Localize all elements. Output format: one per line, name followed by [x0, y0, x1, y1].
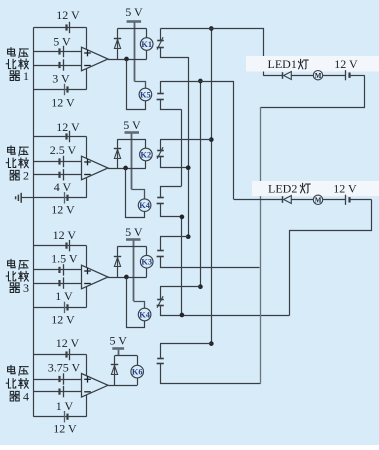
svg-text:1 V: 1 V: [56, 399, 74, 413]
op-amp U1: [82, 47, 109, 71]
wire: K5 contact top to LED2 feed: [161, 82, 234, 200]
wire: coil box top (relay group 2): [117, 139, 146, 141]
svg-text:4: 4: [23, 390, 29, 404]
relay coil K1: [140, 38, 153, 51]
wire: block3 upper contact top branch: [160, 236, 188, 238]
label 电压比较器1: [8, 48, 15, 56]
node: bus D taps LED1 feed wire: [209, 26, 214, 31]
wire: LED2 branch: [234, 199, 282, 201]
wire: non-inverting input (block 2): [34, 161, 82, 163]
label 电压比较器4: [8, 365, 15, 373]
relay coil K6: [131, 365, 144, 378]
op-amp U4: [82, 374, 109, 398]
wire: LED1 return right: [261, 76, 365, 108]
contact block4 (NO) with wires: [160, 344, 162, 359]
wire: bottom supply (block 3): [34, 307, 87, 309]
wire: supply box right edge (block 3): [86, 246, 88, 308]
svg-text:M: M: [315, 72, 322, 80]
wire: bottom supply (block 1): [34, 89, 87, 91]
wire: inverting input (block 2): [34, 174, 82, 176]
node: output junction (block 2): [123, 166, 128, 171]
wire: coil branch (relay group 3): [146, 247, 148, 256]
svg-text:3.75 V: 3.75 V: [48, 361, 81, 375]
node: bus D to K2 contact: [209, 137, 214, 142]
5V supply bar (relay group 3): [126, 238, 141, 241]
svg-text:5 V: 5 V: [125, 225, 143, 239]
wire: diode branch (relay group 1): [117, 29, 119, 59]
ground: [21, 197, 34, 199]
wire: lower coil return loop (block 2): [126, 169, 145, 218]
battery 12V top (block 2): [65, 133, 67, 139]
svg-text:M: M: [315, 197, 322, 205]
wire: bus C (x200): [200, 81, 202, 287]
svg-text:5 V: 5 V: [109, 334, 127, 348]
svg-text:5 V: 5 V: [125, 5, 143, 19]
svg-text:1.5 V: 1.5 V: [51, 252, 78, 266]
svg-text:12 V: 12 V: [56, 336, 80, 350]
flyback diode (relay group 4): [111, 364, 118, 366]
wire: K1 contact top to LED1 feed: [161, 29, 264, 76]
relay coil K3: [140, 255, 153, 268]
svg-text:K4: K4: [139, 310, 151, 319]
wire: bottom supply (block 4): [34, 416, 87, 418]
wire: op-amp output (block 2): [108, 168, 146, 170]
battery input (block 3): [58, 280, 60, 286]
svg-text:3 V: 3 V: [52, 72, 70, 86]
wire: op-amp output (block 3): [108, 277, 147, 279]
wire: coil box top (relay group 1): [117, 28, 146, 30]
wire: coil box top (relay group 4): [115, 355, 137, 357]
contact K4 (NO) block2 with wires: [161, 187, 182, 198]
comparator block 4: top supply wire: [34, 354, 87, 356]
wire: LED1 return vertical: [260, 107, 262, 384]
flyback diode (relay group 3): [114, 256, 121, 258]
comparator block 2: top supply wire: [34, 136, 87, 138]
comparator block 3: top supply wire: [34, 245, 87, 247]
wire: block4 contact top branch: [160, 343, 211, 345]
svg-text:12 V: 12 V: [53, 228, 77, 242]
wire: coil box top (relay group 3): [117, 246, 147, 248]
battery 12V top (block 1): [65, 24, 67, 30]
battery input (block 4): [58, 389, 60, 395]
node: bus A joins LED2 return: [180, 313, 185, 318]
svg-text:12 V: 12 V: [51, 313, 75, 327]
wire: non-inverting input (block 4): [34, 379, 82, 381]
contact K5 (NO) with wires: [160, 81, 162, 93]
5V supply bar (relay group 1): [127, 20, 142, 23]
svg-text:12 V: 12 V: [56, 8, 80, 22]
wire: diode branch (relay group 4): [114, 356, 116, 386]
wire: supply box right edge (block 4): [86, 355, 88, 417]
battery input (block 2): [58, 172, 60, 178]
wire: 5V stem (relay group 2): [131, 133, 133, 189]
wire: bus A (x182) lower: [181, 217, 183, 315]
LED2 diode: [282, 196, 284, 203]
contact block3 lower (NC) with wires: [160, 287, 162, 299]
wire: coil branch (relay group 2): [145, 139, 147, 148]
battery 12V bottom (block 4): [66, 414, 68, 420]
contact K1 (NC) with wires: [160, 29, 162, 41]
wire: diode branch (relay group 2): [117, 139, 119, 168]
LED1 diode: [282, 72, 284, 79]
svg-text:K1: K1: [141, 40, 152, 49]
node: K2 contact return joins bus B: [186, 165, 191, 170]
svg-text:1 V: 1 V: [55, 289, 73, 303]
wire: left vertical bus: [33, 28, 35, 417]
node: bus D to block4 contact: [209, 341, 214, 346]
wire: lower coil return loop (block 3): [127, 278, 145, 328]
node: bus C to block3 lower contact: [198, 284, 203, 289]
node: bus A / contact return: [180, 215, 185, 220]
5V supply bar (relay group 4): [112, 347, 124, 350]
wire: bus A (x182) upper: [181, 109, 183, 186]
svg-text:12 V: 12 V: [51, 96, 75, 110]
op-amp U2: [82, 156, 109, 180]
svg-text:1: 1: [23, 69, 29, 83]
svg-text:12 V: 12 V: [56, 120, 80, 134]
contact block3 upper (NO) with wires: [160, 237, 162, 251]
svg-text:12 V: 12 V: [51, 203, 75, 217]
battery 12V bottom (block 1): [66, 86, 68, 92]
battery reference (block 2): [58, 158, 60, 164]
wire: bus B (x188): [188, 57, 190, 237]
svg-text:12 V: 12 V: [333, 181, 357, 195]
svg-text:3: 3: [23, 281, 29, 295]
battery reference (block 4): [58, 376, 60, 382]
svg-text:K3: K3: [141, 258, 152, 267]
wire: LED2 return: [290, 200, 372, 316]
wire: bus D (x211): [211, 29, 213, 344]
label 电压比较器2: [8, 146, 15, 154]
battery 12V (LED2): [348, 197, 350, 202]
wire: inverting input (block 4): [34, 391, 82, 393]
svg-text:LED2: LED2: [268, 181, 297, 195]
wire: supply box right edge (block 2): [86, 137, 88, 198]
svg-text:2: 2: [23, 169, 29, 183]
wire: op-amp output (block 4): [108, 385, 137, 387]
svg-text:4 V: 4 V: [54, 180, 72, 194]
relay coil K5: [139, 88, 152, 101]
wire: stem jog to lower coil (relay group 2): [132, 190, 145, 199]
label 电压比较器3: [8, 259, 15, 267]
5V supply bar (relay group 2): [125, 131, 140, 134]
node: bus C taps LED2 feed wire: [198, 79, 203, 84]
svg-text:K6: K6: [132, 368, 143, 377]
battery 12V bottom (block 3): [66, 304, 68, 310]
relay coil K4: [138, 308, 151, 321]
node: bus B to block3 upper contact: [186, 234, 191, 239]
wire: coil branch (relay group 1): [146, 29, 148, 38]
battery 12V top (block 4): [65, 351, 67, 357]
relay coil K2: [140, 148, 153, 161]
svg-text:LED1: LED1: [268, 57, 297, 71]
wire: diode branch (relay group 3): [117, 247, 119, 277]
svg-text:5 V: 5 V: [123, 118, 141, 132]
node: output junction (block 1): [124, 57, 129, 62]
battery 12V bottom (block 2): [66, 195, 68, 201]
wire: 5V stem (relay group 1): [134, 22, 136, 81]
motor M (LED2): [313, 195, 322, 204]
wire: inverting input (block 1): [34, 65, 82, 67]
label background band LED1: [246, 56, 379, 72]
battery 12V (LED1): [348, 73, 350, 78]
wire: 5V stem (relay group 3): [133, 240, 135, 301]
wire: supply box right edge (block 1): [86, 28, 88, 90]
wire: stem jog to lower coil (relay group 3): [134, 302, 145, 309]
wire: non-inverting input (block 1): [34, 51, 82, 53]
comparator block 1: top supply wire: [34, 27, 87, 29]
svg-text:K4: K4: [139, 201, 151, 210]
wire: 5V stem (relay group 4): [118, 350, 120, 356]
motor M (LED1): [313, 71, 322, 80]
battery 12V top (block 3): [65, 243, 67, 249]
wire: LED1 branch: [263, 75, 282, 77]
label background band LED2: [252, 181, 379, 196]
svg-text:K2: K2: [141, 150, 152, 159]
svg-text:12 V: 12 V: [334, 57, 358, 71]
wire: non-inverting input (block 3): [34, 269, 82, 271]
battery reference (block 3): [58, 267, 60, 273]
wire: K2 contact top branch: [160, 139, 211, 141]
wire: block3 lower contact top branch: [160, 286, 200, 288]
svg-text:5 V: 5 V: [53, 35, 71, 49]
node: output junction (block 3): [124, 275, 129, 280]
svg-text:K5: K5: [140, 90, 151, 99]
relay coil K4: [138, 199, 151, 212]
svg-text:2.5 V: 2.5 V: [50, 143, 77, 157]
wire: lower coil return loop (block 1): [127, 60, 146, 110]
battery reference (block 1): [58, 48, 60, 54]
wire: bottom supply (block 2): [34, 197, 87, 199]
contact K2 (NC) with wires: [160, 140, 162, 151]
flyback diode (relay group 1): [114, 38, 121, 40]
battery input (block 1): [58, 62, 60, 68]
wire: inverting input (block 3): [34, 283, 82, 285]
wire: stem jog to lower coil (relay group 1): [135, 82, 146, 89]
wire: coil branch (relay group 4): [137, 356, 139, 366]
svg-text:12 V: 12 V: [53, 422, 77, 436]
flyback diode (relay group 2): [114, 148, 121, 150]
op-amp U3: [82, 265, 109, 289]
wire: op-amp output (block 1): [108, 59, 147, 61]
